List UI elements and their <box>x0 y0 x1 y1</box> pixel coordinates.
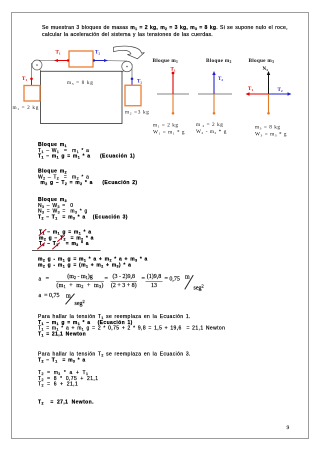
svg-text:Bloque m2: Bloque m2 <box>206 58 232 64</box>
svg-text:T1: T1 <box>248 87 253 92</box>
svg-text:m3 = 8 kg: m3 = 8 kg <box>255 125 281 131</box>
svg-text:W3 = m3 * g: W3 = m3 * g <box>255 132 287 138</box>
svg-text:T2: T2 <box>278 88 283 93</box>
svg-text:T2: T2 <box>137 80 142 85</box>
svg-text:Bloque m3: Bloque m3 <box>249 58 275 64</box>
svg-text:W2 - m2 * g: W2 - m2 * g <box>196 129 227 135</box>
svg-text:m3 = 8 kg: m3 = 8 kg <box>67 80 93 86</box>
svg-text:m 2 = 2 kg: m 2 = 2 kg <box>196 122 223 128</box>
svg-text:W1 = m1 * g: W1 = m1 * g <box>153 130 185 136</box>
svg-text:T1: T1 <box>56 51 61 56</box>
svg-text:m1 = 2 kg: m1 = 2 kg <box>153 123 179 129</box>
svg-text:N3: N3 <box>263 67 269 72</box>
svg-text:T2: T2 <box>95 51 100 56</box>
svg-text:m1 = 2 kg: m1 = 2 kg <box>13 105 39 111</box>
svg-text:T1: T1 <box>22 77 27 82</box>
svg-text:T2: T2 <box>218 77 223 82</box>
svg-text:m2 =3 kg: m2 =3 kg <box>125 110 150 116</box>
svg-text:Bloque m1: Bloque m1 <box>153 58 179 64</box>
